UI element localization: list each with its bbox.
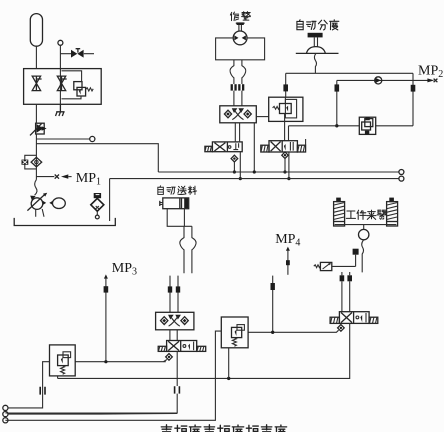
pump shaft arrows [43,201,53,205]
wire: coupling stem to switch line [355,255,357,267]
shutoff valve V1 (in box, left) [32,76,41,91]
wire: drain to supply port 2 [5,394,177,413]
wire: gauge branch [36,138,89,140]
feed cylinder [160,198,189,209]
wire: throttle assembly to junction [337,125,360,127]
wire: reducing box inlet from port 3 [5,331,221,420]
coupling on MP2 branch [335,84,340,91]
bus P end circle [399,170,404,175]
svg-text:MP3: MP3 [112,261,137,278]
wire: feed cylinder ports [167,209,192,227]
svg-text:MP1: MP1 [76,171,101,188]
wire: return line drop to tank [109,179,111,221]
MP2 arrow and x [427,78,434,82]
coupling near gauge [353,249,359,255]
wire: wavy suction to pump [35,180,37,196]
wire: valve C A-port to reducing line [164,360,168,362]
pressure switch W [314,265,321,268]
wire: MP2 branch vertical [336,80,338,125]
pressure reducing valve box (clamp) [221,317,248,348]
filter diamond on main line [31,157,42,167]
wire: feed hoses with bulges [180,226,184,273]
svg-text:MP2: MP2 [418,63,443,80]
MP3 measuring line with arrow [104,274,108,278]
left solenoid of valve C [158,346,166,351]
clamp cylinder left [334,198,345,226]
cam operated pilot valve box [269,97,303,121]
one-way throttle assembly (nested squares) [359,117,375,134]
wire: block right edge to cam valve box [256,116,268,118]
wire: header down to cam valve [285,73,287,97]
right solenoid of valve D [369,317,378,323]
wire: clamp pilot branch line [272,276,274,333]
dressing tool T symbol [236,22,245,24]
filter with bypass check: bypass loop [25,155,37,169]
wire: MP2 line with check valve [337,79,429,81]
hand shutoff valve with T handle [71,50,84,58]
wire: machine side clamp stubs [342,272,350,275]
coupling on cam valve line [283,84,288,91]
junction dot [335,124,338,127]
wire: gauge hose down [362,240,364,273]
wire: main pressure vertical below box [35,104,37,122]
relief valve spring [86,88,94,91]
MP1 measuring point [36,176,54,178]
solenoid valve D (clamp circuit) [330,312,378,324]
wire: indexing hose wiggle [314,53,316,73]
coupling on right drop [411,85,416,92]
solenoid valve B (indexing circuit 4/2) [261,139,306,152]
dual pilot operated check block (feed) [156,312,194,330]
check valve under valve C [166,354,173,361]
right solenoid of valve C [197,346,206,351]
wire: pilot line to throttle assembly [376,125,413,127]
breather filter diamond [91,198,104,211]
dressing quick couplings (4 bars) [231,84,233,90]
wire: system pressure feed line [36,144,158,172]
manifold box [24,69,102,105]
dressing hydraulic motor [233,31,247,45]
wire: dressing motor frame loop [216,38,265,60]
wire: valve D A-port to reducing box [248,330,339,332]
wire: indexing header line [286,72,413,74]
svg-text:MP4: MP4 [275,232,300,249]
wire: machine side feed lines [170,276,178,313]
check valve under valve A [231,155,238,162]
MP3 quick coupling [104,286,109,292]
shutoff valve V2 (in box, middle) [57,76,66,91]
indexing cylinder T bar [308,33,323,38]
wire: feed reducing inlet from port 1 [8,362,50,408]
wire: block to 4/2 valve C [170,330,177,341]
wire: cam valve outputs down to solenoid valve B [284,121,286,141]
caption (clipped at bottom) [161,425,171,432]
breather stem and ring [96,211,98,215]
wire: block bottom right to P bus [253,123,255,172]
wire: vent line down into box [59,45,61,104]
wire: clamp manifold line [335,224,397,226]
wire: reducing box drain [228,348,230,379]
bus T end circle [399,176,404,181]
wire: port 2 line [8,413,100,415]
label: dressing 修整 [230,12,238,21]
gauge circle [90,136,95,141]
coupling (double bars) on valve C drain [175,386,180,393]
right solenoid of valve B [297,145,305,152]
wire: reducing output line [75,361,166,363]
clamp quick couplings [340,275,345,281]
wire: pressure bus P [158,171,398,173]
wire: accumulator to manifold box [35,46,37,68]
left solenoid of valve D [330,317,339,323]
wire: below throttle [35,134,37,180]
pump legs [36,209,44,217]
wire: valve A ports to bus [234,152,240,179]
electric motor [53,198,66,209]
wire: feed reducing drain [57,376,59,379]
check valve under valve B [282,152,288,159]
accumulator [30,14,42,47]
wire: return bus T [110,178,399,180]
indexing table dome [306,47,325,54]
solenoid valve A (dressing circuit 4/2) [205,142,242,152]
wire: valve D return drop [58,323,350,378]
wire: switch to clamp line [332,265,356,267]
left solenoid of valve B [261,145,269,152]
label: auto feed 自动送料 [158,186,164,195]
dual pilot operated check block (dressing) [220,106,256,123]
bypass check (black box with X) [22,160,29,165]
tank vent symbol [56,104,65,116]
vent port circle [58,40,63,45]
label: clamp 工件夹紧 [346,211,355,218]
label: indexing 自动分度 [297,20,303,30]
wire: branch to hand shutoff valve [60,53,94,55]
wire: valve B ports to bus [285,152,289,179]
feed quick couplings [168,286,172,292]
breather filter cap [94,193,101,198]
pressure reducing valve box (feed) [50,345,76,376]
wire: couplings to pilot check block [234,91,242,106]
wire: valve C bottom port down [176,351,178,386]
wire: dressing hoses with flex bulges [230,60,234,84]
solenoid block of valve A [205,146,213,151]
pump (variable displacement) [31,198,43,210]
wire: junction to valve B top corner [289,126,337,141]
supply port circles [3,405,8,410]
check valve under valve D [338,325,345,332]
coupling (double bars) on inlet [40,387,45,395]
check valve to MP2 [375,77,382,84]
oil tank bracket [14,218,115,226]
wire: relief pilot loop inside box [62,71,82,99]
MP4 measuring line with arrow [286,247,290,251]
wire: block to solenoid valve A [235,123,239,142]
solenoid valve C (feed circuit) [158,341,206,352]
wire: couplings to valve D [342,281,350,311]
throttle / flow control valve [36,123,45,134]
clamp cylinder right [387,198,398,226]
wire: right header drop [412,73,414,126]
clamp gauge circle [363,225,365,230]
relief valve (in box, right) [74,82,82,90]
